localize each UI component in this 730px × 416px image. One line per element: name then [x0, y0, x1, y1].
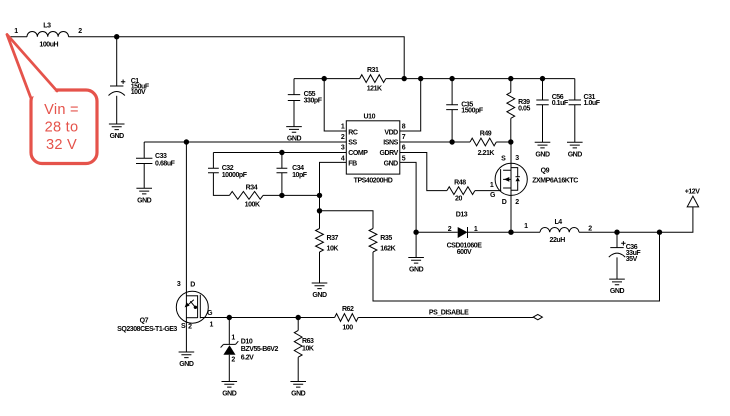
svg-text:3: 3: [341, 145, 345, 152]
wire (C1 bottom lead): [116, 96, 118, 124]
pin 2 label (L3): [78, 28, 82, 35]
wire (C35 top lead): [451, 79, 453, 105]
pin S label (Q7): [181, 323, 186, 330]
ground (D10): [222, 382, 238, 398]
wire (VDD pin 8): [400, 79, 421, 131]
svg-text:1: 1: [231, 334, 235, 341]
svg-text:BZV55-B6V2: BZV55-B6V2: [241, 346, 279, 353]
wire (R63 bottom lead): [297, 357, 299, 381]
pin 1 label (D13): [474, 226, 478, 233]
svg-text:35V: 35V: [626, 256, 638, 263]
node (FB divider junction): [317, 208, 322, 213]
node (C34 top junction): [279, 150, 284, 155]
svg-text:Q9: Q9: [541, 168, 550, 175]
svg-text:R35: R35: [380, 235, 392, 242]
svg-text:1: 1: [341, 123, 345, 130]
node (R63 junction): [296, 315, 301, 320]
wire (U10 GND pin 5): [400, 162, 416, 257]
svg-text:GND: GND: [179, 361, 194, 368]
svg-text:22uH: 22uH: [550, 237, 566, 244]
svg-text:D: D: [502, 199, 507, 206]
node (C35 bottom junction): [449, 139, 454, 144]
node (D13 anode junction): [413, 230, 418, 235]
svg-text:C32: C32: [222, 165, 234, 172]
resistor R39: [507, 92, 531, 118]
svg-text:3: 3: [177, 281, 181, 288]
wire (Q7 gate net): [200, 317, 334, 319]
svg-text:GND: GND: [291, 391, 306, 398]
node (R34-FB junction): [317, 193, 322, 198]
wire (R39 bottom lead): [510, 118, 512, 142]
svg-text:1: 1: [14, 28, 18, 35]
wire (VDD rail left): [294, 78, 360, 80]
svg-text:3: 3: [515, 155, 519, 162]
svg-text:R31: R31: [367, 67, 379, 74]
resistor R49: [470, 130, 496, 157]
callout balloon (Vin note): [7, 35, 97, 164]
pin 3 label (Q9): [515, 155, 519, 162]
pin 2 label (Q9): [515, 199, 519, 206]
wire (switch node to L4): [511, 231, 540, 233]
svg-text:0.05: 0.05: [518, 105, 530, 112]
pin D label (Q9): [502, 199, 507, 206]
wire (D13 cathode lead): [468, 231, 512, 233]
svg-text:Q7: Q7: [140, 317, 149, 324]
wire (C55 top lead): [293, 79, 295, 95]
svg-text:7: 7: [402, 134, 406, 141]
op-amp U10 (TPS40200HD controller): [346, 113, 400, 184]
wire (R49 to Q9 S node): [496, 141, 511, 143]
wire (R63 top lead): [297, 318, 299, 331]
wire (C33 top lead): [143, 142, 145, 158]
wire (C34 top lead): [281, 153, 283, 169]
pin 2 label (D13): [448, 226, 452, 233]
pin 3 label (U10 COMP): [341, 145, 345, 152]
svg-text:0.1uF: 0.1uF: [552, 100, 569, 107]
resistor R48: [447, 179, 475, 202]
svg-text:GND: GND: [535, 151, 550, 158]
svg-text:D: D: [190, 281, 195, 288]
wire (R39 top lead): [510, 79, 512, 93]
wire (C33 bottom lead): [143, 164, 145, 189]
wire (GDRV net): [400, 153, 447, 191]
svg-text:2.21K: 2.21K: [478, 150, 495, 157]
svg-text:SS: SS: [348, 139, 357, 146]
wire (RC pin 1): [324, 79, 346, 131]
wire (C36 bottom lead): [616, 257, 618, 279]
node (rail drop): [402, 76, 407, 81]
svg-text:C33: C33: [155, 153, 167, 160]
ground (U10 pin 5): [408, 258, 424, 274]
node (VDD tap): [418, 76, 423, 81]
svg-text:GND: GND: [610, 288, 625, 295]
pin 1 label (D10): [231, 334, 235, 341]
wire (C34 bottom lead): [281, 173, 283, 196]
svg-text:2: 2: [588, 226, 592, 233]
svg-text:1: 1: [209, 321, 213, 328]
callout text Vin = 28 to 32 V: [44, 102, 79, 153]
wire (C1 top lead): [116, 37, 118, 86]
svg-text:SQ2308CES-T1-GE3: SQ2308CES-T1-GE3: [117, 326, 177, 333]
svg-text:Vin =: Vin =: [44, 102, 79, 118]
pin 1 label (L4): [524, 223, 528, 230]
node (C1 tap): [114, 34, 119, 39]
wire (FB pin 4): [320, 162, 347, 228]
capacitor C36: [609, 241, 642, 263]
wire (Q7 drain lead): [185, 142, 187, 352]
pin 3 label (Q7): [177, 281, 181, 288]
transistor Q9 ZXMP6A16KTC: [495, 163, 578, 195]
ground (C56): [535, 142, 551, 158]
wire (C32 bottom lead): [213, 173, 229, 196]
pin 5 label (U10 GND): [402, 155, 406, 162]
wire (COMP net): [213, 152, 346, 154]
svg-text:R49: R49: [480, 130, 492, 137]
pin 6 label (U10 GDRV): [402, 145, 406, 152]
svg-text:1.0uF: 1.0uF: [584, 100, 601, 107]
svg-text:GND: GND: [312, 292, 327, 299]
svg-text:R63: R63: [302, 338, 314, 345]
capacitor C32: [208, 165, 248, 179]
resistor R63: [294, 330, 314, 357]
svg-text:L4: L4: [554, 219, 562, 226]
svg-text:G: G: [207, 310, 213, 317]
capacitor C35: [446, 102, 484, 115]
svg-text:GND: GND: [137, 197, 152, 204]
svg-text:GND: GND: [222, 391, 237, 398]
svg-text:C34: C34: [292, 165, 304, 172]
svg-text:S: S: [501, 156, 506, 163]
diode D10 BZV55-B6V2 (zener): [221, 339, 279, 362]
svg-text:VDD: VDD: [384, 129, 398, 136]
svg-text:GND: GND: [384, 161, 399, 168]
wire (output rail): [579, 207, 693, 232]
svg-text:10K: 10K: [302, 346, 314, 353]
port PS_DISABLE (off-page connector): [533, 314, 542, 319]
capacitor C34: [277, 165, 308, 179]
wire (C56 bottom lead): [542, 105, 544, 143]
pin 2 label (Q7): [188, 324, 192, 331]
wire (R34 to FB): [263, 194, 320, 196]
svg-text:COMP: COMP: [348, 150, 368, 157]
pin 1 label (U10 RC): [341, 123, 345, 130]
svg-text:100V: 100V: [131, 89, 146, 96]
svg-text:R37: R37: [327, 235, 339, 242]
svg-text:2: 2: [78, 28, 82, 35]
pin G label (Q7): [207, 310, 213, 317]
svg-text:GND: GND: [568, 151, 583, 158]
svg-text:2: 2: [188, 324, 192, 331]
svg-text:D13: D13: [456, 212, 468, 219]
wire (SS net): [144, 141, 346, 143]
svg-text:100uH: 100uH: [39, 41, 58, 48]
svg-text:2: 2: [448, 226, 452, 233]
inductor L4: [540, 219, 579, 244]
svg-text:2: 2: [231, 356, 235, 363]
node (R39 tap): [508, 76, 513, 81]
wire (R48 to Q9 gate): [475, 190, 501, 192]
ground (C1): [109, 124, 125, 140]
capacitor C31: [569, 94, 601, 107]
wire (C31 top lead): [574, 79, 576, 100]
wire (D10 anode lead): [228, 355, 230, 382]
wire (Vin input stub): [9, 36, 27, 38]
svg-text:1500pF: 1500pF: [461, 108, 484, 115]
svg-text:5: 5: [402, 155, 406, 162]
svg-text:28 to: 28 to: [45, 120, 79, 136]
pin D label (Q7): [190, 281, 195, 288]
svg-text:G: G: [490, 192, 496, 199]
pin S label (Q9): [501, 156, 506, 163]
pin 1 label (Q9 gate): [490, 182, 494, 189]
node (Q9 source junction): [508, 139, 513, 144]
ground (C36): [609, 279, 625, 295]
wire (R35 to Vout feedback): [373, 232, 660, 301]
svg-text:GND: GND: [110, 133, 125, 140]
capacitor C55: [288, 91, 323, 105]
svg-text:R62: R62: [342, 306, 354, 313]
diode D13 CSD01060E: [447, 212, 483, 257]
svg-text:6: 6: [402, 145, 406, 152]
svg-text:U10: U10: [364, 113, 376, 120]
resistor R34: [229, 185, 263, 209]
svg-text:100: 100: [342, 325, 353, 332]
ground (Q7): [179, 352, 195, 368]
pin 8 label (U10 VDD): [402, 123, 406, 130]
svg-text:162K: 162K: [380, 246, 395, 253]
svg-text:0.68uF: 0.68uF: [155, 161, 176, 168]
node (RC tap): [322, 76, 327, 81]
wire (Vin top rail): [69, 37, 405, 79]
svg-text:10K: 10K: [327, 246, 339, 253]
capacitor C33: [136, 153, 176, 168]
resistor R35: [369, 229, 396, 253]
ground (C31): [567, 142, 583, 158]
svg-text:121K: 121K: [367, 85, 382, 92]
wire (C35 bottom lead): [451, 110, 453, 142]
ground (C55): [286, 127, 302, 143]
node (C36 tap): [614, 230, 619, 235]
svg-text:100K: 100K: [245, 202, 260, 209]
node PS_DISABLE label: [429, 309, 469, 316]
wire (R37 bottom lead): [319, 252, 321, 283]
svg-text:6.2V: 6.2V: [241, 355, 254, 362]
svg-text:+12V: +12V: [685, 189, 701, 196]
wire (ISNS net): [400, 141, 470, 143]
svg-text:20: 20: [455, 196, 462, 203]
wire (C55 bottom lead): [293, 101, 295, 127]
wire (C56 top lead): [542, 79, 544, 100]
pin 2 label (L4): [588, 226, 592, 233]
power +12V: [685, 189, 701, 207]
node (SS junction): [184, 139, 189, 144]
svg-text:TPS40200HD: TPS40200HD: [354, 177, 393, 184]
svg-text:2: 2: [341, 134, 345, 141]
svg-text:1: 1: [524, 223, 528, 230]
svg-text:RC: RC: [348, 129, 358, 136]
svg-text:R34: R34: [246, 185, 258, 192]
pin 7 label (U10 ISNS): [402, 134, 406, 141]
svg-text:2: 2: [515, 199, 519, 206]
svg-text:32 V: 32 V: [46, 137, 77, 153]
ground (C33): [136, 188, 152, 204]
node (feedback tap): [657, 230, 662, 235]
node (C56 tap): [540, 76, 545, 81]
svg-text:ZXMP6A16KTC: ZXMP6A16KTC: [532, 178, 578, 185]
svg-text:GND: GND: [409, 267, 424, 274]
node (switch node): [508, 230, 513, 235]
svg-text:10pF: 10pF: [292, 172, 308, 179]
transistor Q7 SQ2308CES-T1-GE3: [117, 291, 208, 333]
svg-text:8: 8: [402, 123, 406, 130]
wire (C32 top lead): [212, 153, 214, 169]
capacitor C1: [109, 78, 150, 96]
node (C34 bottom junction): [279, 193, 284, 198]
svg-text:GDRV: GDRV: [379, 150, 398, 157]
wire (FB to R35): [320, 211, 374, 229]
svg-text:330pF: 330pF: [304, 97, 323, 104]
svg-text:1: 1: [490, 182, 494, 189]
ground (R63): [290, 382, 306, 398]
inductor L3: [27, 23, 69, 49]
svg-text:FB: FB: [348, 161, 357, 168]
pin 2 label (D10): [231, 356, 235, 363]
svg-text:L3: L3: [43, 23, 51, 30]
wire (C31 bottom lead): [574, 105, 576, 143]
pin 1 label (L3): [14, 28, 18, 35]
svg-text:ISNS: ISNS: [383, 139, 398, 146]
pin G label (Q9): [490, 192, 496, 199]
wire (VDD rail right): [386, 78, 575, 80]
pin 4 label (U10 FB): [341, 155, 345, 162]
wire (Q9 source lead): [510, 142, 512, 232]
resistor R31: [360, 67, 386, 92]
ground (R37): [312, 283, 328, 299]
resistor R37: [316, 229, 339, 253]
svg-text:600V: 600V: [457, 249, 472, 256]
node (D10 junction): [227, 315, 232, 320]
svg-text:PS_DISABLE: PS_DISABLE: [429, 309, 469, 316]
resistor R62: [335, 306, 359, 332]
wire (C36 top lead): [616, 232, 618, 247]
svg-text:R48: R48: [454, 179, 466, 186]
svg-text:D10: D10: [241, 339, 253, 346]
pin 2 label (U10 SS): [341, 134, 345, 141]
pin 1 label (Q7 gate): [209, 321, 213, 328]
svg-text:10000pF: 10000pF: [222, 172, 248, 179]
svg-text:S: S: [181, 323, 186, 330]
wire (D13 anode lead): [416, 231, 458, 233]
wire (D10 cathode lead): [228, 318, 230, 345]
svg-text:4: 4: [341, 155, 345, 162]
capacitor C56: [536, 94, 569, 107]
wire (PS_DISABLE net): [358, 317, 533, 319]
node (C35 tap): [449, 76, 454, 81]
